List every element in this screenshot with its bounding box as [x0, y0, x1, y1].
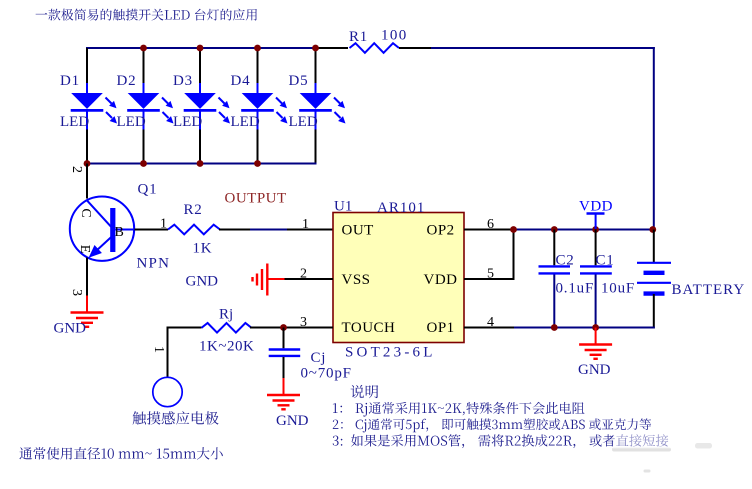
wire bottom bus — [86, 163, 317, 165]
svg-text:2: 2 — [69, 166, 84, 173]
wire right vertical — [653, 47, 655, 230]
svg-text:GND: GND — [578, 362, 611, 378]
wire C2 bottom — [553, 275, 555, 328]
svg-text:R1: R1 — [349, 29, 368, 45]
transistor Q1 collector stroke — [86, 200, 111, 227]
junction Rj-Cj — [280, 324, 287, 331]
watermark smudge — [612, 432, 712, 473]
svg-text:U1: U1 — [334, 199, 352, 215]
capacitor Cj — [269, 350, 301, 356]
svg-text:D4: D4 — [231, 73, 251, 89]
wire vdd rail — [513, 229, 655, 231]
wire battery top — [653, 230, 655, 263]
transistor Q1 emitter stroke — [93, 237, 112, 254]
junction — [84, 160, 91, 167]
wire R2 to chip pin1 a — [219, 229, 250, 231]
svg-text:R2: R2 — [184, 202, 203, 218]
touch electrode circle — [153, 377, 182, 406]
wire Rj to junction — [250, 327, 333, 329]
svg-text:E: E — [77, 245, 92, 254]
svg-text:B: B — [115, 225, 124, 240]
transistor Q1 circle — [70, 197, 134, 261]
capacitor C2 — [539, 266, 571, 273]
LED D4 — [241, 48, 287, 164]
svg-text:Q1: Q1 — [138, 182, 158, 198]
junction — [254, 45, 261, 52]
svg-text:0~70pF: 0~70pF — [301, 366, 352, 382]
wire top right — [431, 47, 655, 49]
junction bottom C1 — [592, 324, 599, 331]
op-amp chip U1 body — [333, 213, 464, 343]
resistor Rj — [202, 323, 252, 333]
svg-text:SOT23-6L: SOT23-6L — [345, 345, 436, 361]
junction — [140, 160, 147, 167]
wire Cj bottom — [283, 357, 285, 379]
wire pin4 — [464, 327, 514, 329]
ground VSS rotated — [253, 264, 285, 296]
svg-text:LED: LED — [231, 114, 260, 130]
wire R1 to corner — [399, 47, 432, 49]
svg-text:NPN: NPN — [137, 256, 171, 272]
wire pin6 — [464, 229, 513, 231]
junction — [197, 45, 204, 52]
label 说明 — [351, 385, 379, 398]
battery symbol — [637, 263, 671, 294]
svg-text:D1: D1 — [60, 73, 80, 89]
svg-text:LED: LED — [60, 114, 89, 130]
junction — [312, 45, 319, 52]
junction vdd rail — [649, 226, 656, 233]
power VDD symbol — [587, 214, 605, 230]
wire Cj top — [283, 328, 285, 349]
svg-text:100: 100 — [381, 28, 408, 44]
LED D3 — [184, 48, 230, 164]
junction vdd rail — [551, 226, 558, 233]
svg-text:10uF: 10uF — [601, 281, 635, 297]
svg-text:BATTERY: BATTERY — [672, 282, 746, 298]
svg-text:OP1: OP1 — [427, 320, 455, 336]
ground main — [579, 328, 612, 359]
wire pin5 vertical — [513, 230, 515, 281]
wire pin5 — [464, 278, 514, 280]
svg-text:AR101: AR101 — [377, 200, 425, 216]
LED D1 — [71, 48, 117, 164]
svg-text:C1: C1 — [596, 253, 615, 269]
svg-text:D5: D5 — [289, 73, 309, 89]
wire base to R2 — [135, 229, 169, 231]
svg-text:0.1uF: 0.1uF — [556, 281, 595, 297]
label bottom size note — [19, 447, 222, 460]
wire collector — [86, 164, 88, 199]
ground under Q1 — [71, 296, 104, 327]
svg-text:LED: LED — [289, 114, 318, 130]
svg-text:TOUCH: TOUCH — [342, 320, 396, 336]
junction — [140, 45, 147, 52]
junction bottom C2 — [551, 324, 558, 331]
junction — [197, 160, 204, 167]
svg-text:Rj: Rj — [219, 307, 233, 323]
svg-text:VDD: VDD — [579, 199, 613, 215]
wire C2 top — [553, 230, 555, 266]
title text 一款极简易的触摸开关LED台灯的应用 — [36, 9, 257, 21]
ground under Cj — [267, 378, 300, 409]
note line 3 — [333, 434, 669, 448]
svg-text:LED: LED — [117, 114, 146, 130]
wire bottom rail — [514, 327, 655, 329]
note line 1 — [333, 402, 585, 417]
wire to R1 — [316, 47, 349, 49]
wire pin2 — [284, 278, 333, 280]
wire touch horiz — [167, 327, 202, 329]
svg-text:OP2: OP2 — [427, 223, 455, 239]
svg-text:GND: GND — [54, 321, 87, 337]
wire C1 top — [595, 230, 597, 266]
svg-text:Cj: Cj — [311, 350, 327, 366]
junction vdd rail — [592, 226, 599, 233]
wire R2 to chip pin1 b — [250, 229, 287, 231]
svg-text:GND: GND — [186, 274, 219, 290]
svg-text:1: 1 — [302, 217, 309, 232]
svg-text:1: 1 — [160, 217, 167, 232]
svg-text:LED: LED — [173, 114, 202, 130]
note line 2 — [333, 418, 651, 432]
resistor R2 — [168, 225, 220, 235]
svg-text:3: 3 — [69, 289, 84, 296]
transistor Q1 base bar — [110, 208, 115, 252]
svg-text:D3: D3 — [173, 73, 193, 89]
wire battery bottom — [653, 294, 655, 329]
svg-text:1: 1 — [151, 346, 166, 353]
wire R2 to chip pin1 c — [287, 229, 333, 231]
wire top bus — [86, 47, 317, 49]
svg-text:VDD: VDD — [424, 272, 458, 288]
LED D2 — [127, 48, 173, 164]
svg-text:OUTPUT: OUTPUT — [225, 191, 287, 207]
svg-text:C: C — [78, 208, 93, 217]
junction vdd rail — [510, 226, 517, 233]
svg-text:D2: D2 — [117, 73, 137, 89]
junction — [254, 160, 261, 167]
label 触摸感应电极 — [133, 411, 219, 425]
svg-text:C2: C2 — [556, 253, 575, 269]
resistor R1 — [350, 43, 400, 53]
svg-text:GND: GND — [276, 413, 309, 429]
transistor Q1 base lead — [115, 229, 134, 231]
wire emitter — [86, 258, 88, 297]
wire C1 bottom — [595, 275, 597, 328]
capacitor C1 — [580, 266, 612, 273]
svg-text:VSS: VSS — [342, 272, 371, 288]
svg-text:1K: 1K — [193, 241, 213, 257]
svg-text:OUT: OUT — [342, 223, 374, 239]
transistor Q1 emitter arrow — [89, 245, 102, 258]
LED D5 — [299, 48, 345, 164]
wire electrode vertical — [167, 328, 169, 378]
svg-text:1K~20K: 1K~20K — [199, 339, 254, 355]
